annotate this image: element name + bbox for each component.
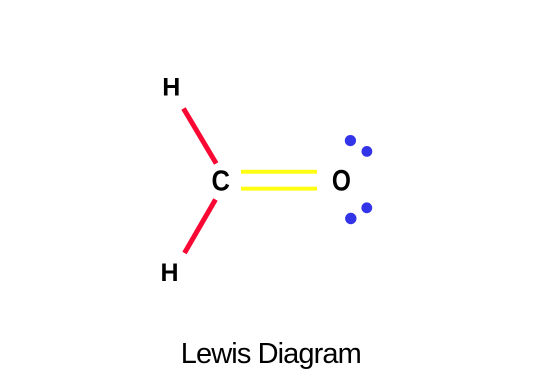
lone pair dot 1 (upper-left blue dot) [345, 135, 356, 146]
lone pair dot 2 (upper-right blue dot) [362, 146, 373, 157]
lone pair dot 4 (lower-left blue dot) [345, 213, 356, 224]
lone pair dot 3 (lower-right blue dot) [361, 202, 372, 213]
svg-text:O: O [332, 163, 351, 197]
svg-text:C: C [212, 164, 230, 197]
bond C-H1 (red single bond) [184, 109, 217, 164]
svg-text:H: H [161, 259, 179, 287]
double bond C=O lower line (yellow) [241, 187, 317, 191]
svg-text:Lewis Diagram: Lewis Diagram [181, 338, 361, 370]
svg-text:H: H [162, 74, 180, 102]
double bond C=O upper line (yellow) [241, 170, 317, 174]
bond C-H2 (red single bond) [185, 200, 216, 254]
